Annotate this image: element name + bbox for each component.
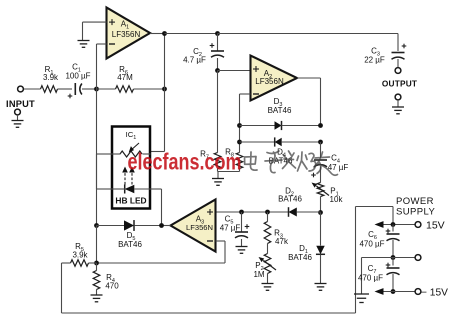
wire D2 to node I bbox=[297, 211, 321, 213]
wire A1 output bbox=[150, 33, 165, 35]
resistor R6 bbox=[116, 65, 134, 92]
diode D4 bbox=[269, 137, 293, 165]
wire rail node A down to D5 bbox=[96, 89, 98, 226]
optocoupler IC1 box bbox=[112, 127, 150, 209]
node D junction (C2 bottom) bbox=[215, 58, 220, 73]
svg-text:LF356N: LF356N bbox=[186, 223, 213, 232]
diode D2 bbox=[278, 187, 302, 217]
watermark elecfans.com bbox=[128, 149, 242, 175]
svg-text:470 µF: 470 µF bbox=[359, 239, 384, 248]
svg-text:4.7 µF: 4.7 µF bbox=[183, 56, 206, 65]
capacitor C6 bbox=[359, 225, 399, 249]
wire R5 left leads bbox=[62, 262, 97, 264]
light arrows in IC1 bbox=[122, 167, 135, 185]
svg-text:470 µF: 470 µF bbox=[358, 273, 383, 282]
wire node D to A2 plus bbox=[218, 70, 251, 72]
capacitor C4 bbox=[311, 154, 348, 178]
wire 0V to ground bbox=[362, 258, 394, 294]
ground (C5) bbox=[236, 247, 248, 254]
ground (power supply) bbox=[354, 294, 369, 303]
svg-text:10k: 10k bbox=[330, 195, 344, 204]
wire A1 minus input bbox=[97, 44, 107, 89]
wire node A to R6 bbox=[97, 88, 116, 90]
wire R1 to C1 bbox=[58, 88, 73, 90]
wire R4 to ground bbox=[96, 290, 98, 295]
svg-text:100 µF: 100 µF bbox=[65, 72, 90, 81]
wire C4 to P1 bbox=[320, 167, 322, 183]
wire LDR right lead bbox=[143, 153, 151, 155]
node N junction (R5/R4) bbox=[94, 261, 99, 266]
node C junction (top bus at C2) bbox=[215, 31, 220, 36]
capacitor C3 bbox=[364, 44, 406, 65]
resistor R4 bbox=[93, 263, 119, 291]
ground (A1 plus input) bbox=[78, 41, 90, 48]
node L junction (D5 left) bbox=[94, 223, 99, 228]
potentiometer P1 bbox=[312, 183, 344, 205]
wire C3 to output bbox=[397, 59, 399, 68]
wire R6 to node B bbox=[134, 88, 165, 90]
terminal -15V bbox=[415, 288, 448, 299]
wire C5 to ground bbox=[241, 239, 243, 246]
terminal 0V bbox=[415, 255, 421, 261]
resistor R8 bbox=[225, 148, 243, 169]
output terminal bbox=[382, 68, 417, 89]
LED in IC1 (HB LED) bbox=[115, 185, 146, 206]
svg-text:elecfans.com: elecfans.com bbox=[128, 149, 242, 175]
wire D4 row left bbox=[240, 141, 275, 143]
wire 0V row bbox=[393, 257, 415, 259]
wire R7 R8 bottoms bbox=[218, 169, 240, 179]
ground (R7 R8) bbox=[212, 179, 224, 186]
capacitor C5 bbox=[220, 212, 250, 238]
ground (R4) bbox=[91, 295, 103, 302]
resistor R5 bbox=[71, 242, 89, 266]
wire LED right lead bbox=[134, 189, 162, 226]
wire A3 output bbox=[162, 225, 171, 227]
node Q junction (0V) bbox=[391, 255, 396, 260]
wire A1 output bus to C2 bbox=[165, 33, 218, 35]
op-amp A2 bbox=[251, 56, 298, 101]
op-amp A1 bbox=[107, 8, 151, 59]
watermark chinese script bbox=[245, 151, 338, 175]
ground (D1) bbox=[315, 284, 327, 291]
input ground terminal bbox=[15, 109, 21, 120]
wire A2 output bbox=[297, 78, 321, 126]
capacitor C7 bbox=[358, 258, 400, 283]
wire D5 right bbox=[134, 225, 161, 227]
photoresistor in IC1 bbox=[120, 143, 142, 157]
svg-text:OUTPUT: OUTPUT bbox=[382, 79, 417, 89]
wire LDR left lead bbox=[97, 153, 121, 155]
diode D3 bbox=[268, 97, 292, 130]
wire C6 to node Q bbox=[392, 240, 394, 258]
svg-text:POWER: POWER bbox=[396, 196, 434, 207]
node I junction bbox=[318, 210, 323, 215]
capacitor C2 bbox=[183, 34, 224, 65]
node G junction (D4 row left) bbox=[237, 140, 242, 145]
ground (output) bbox=[392, 107, 404, 114]
wire LED left lead bbox=[97, 154, 126, 189]
node E junction (D3 row left) bbox=[237, 123, 242, 128]
potentiometer P2 bbox=[253, 254, 276, 280]
svg-text:BAT46: BAT46 bbox=[268, 106, 292, 115]
svg-text:22 µF: 22 µF bbox=[364, 56, 385, 65]
wire D3 row right bbox=[282, 125, 321, 127]
svg-text:47M: 47M bbox=[117, 73, 133, 82]
wire top bus C2 to C3 bbox=[218, 34, 399, 52]
wire +15V row bbox=[375, 221, 416, 228]
svg-text:3.9k: 3.9k bbox=[43, 73, 59, 82]
svg-text:3.9k: 3.9k bbox=[72, 251, 88, 260]
diode D5 bbox=[118, 220, 142, 249]
svg-text:LF356N: LF356N bbox=[112, 30, 141, 39]
resistor R7 bbox=[200, 150, 221, 169]
wire C1 to node A bbox=[82, 88, 97, 90]
diode D1 bbox=[288, 244, 325, 262]
wire -15V row bbox=[375, 288, 416, 295]
svg-text:470: 470 bbox=[105, 282, 119, 291]
svg-text:BAT46: BAT46 bbox=[278, 195, 302, 204]
node B junction bbox=[162, 87, 167, 92]
wire A2 minus input bbox=[240, 94, 251, 153]
svg-text:SUPPLY: SUPPLY bbox=[396, 207, 435, 218]
wire R3 to P2 bbox=[267, 244, 269, 254]
node B top junction bbox=[162, 31, 167, 36]
svg-text:HB LED: HB LED bbox=[115, 196, 146, 206]
svg-text:47 µF: 47 µF bbox=[328, 163, 349, 172]
output ground terminal bbox=[395, 94, 401, 106]
wire D3 row left bbox=[240, 125, 275, 127]
node M junction (D5 right) bbox=[159, 223, 164, 228]
wire A1 plus input bbox=[83, 22, 107, 40]
wire D4 row right bbox=[282, 141, 321, 143]
input terminal bbox=[6, 86, 35, 109]
svg-text:BAT46: BAT46 bbox=[288, 253, 312, 262]
svg-text:IC1: IC1 bbox=[126, 130, 137, 141]
ground (input) bbox=[12, 121, 24, 128]
op-amp A3 bbox=[171, 200, 216, 252]
wire D5 left bbox=[97, 225, 125, 227]
wire C7 to node R bbox=[392, 274, 394, 292]
wire input to R1 bbox=[23, 88, 41, 90]
wire A3 plus row bbox=[216, 211, 289, 213]
resistor R1 bbox=[41, 65, 60, 92]
resistor R3 bbox=[264, 222, 289, 247]
node F junction (D3 row right) bbox=[318, 123, 323, 128]
power supply label bbox=[396, 196, 435, 218]
wire P1 to node I bbox=[320, 197, 322, 213]
svg-text:LF356N: LF356N bbox=[255, 77, 284, 86]
svg-text:47k: 47k bbox=[275, 237, 289, 246]
wire A2 out rail to C4 bbox=[320, 142, 322, 158]
node K junction (R3 tap) bbox=[265, 210, 270, 215]
capacitor C1 bbox=[65, 63, 90, 99]
terminal +15V bbox=[415, 220, 445, 232]
svg-text:47 µF: 47 µF bbox=[220, 224, 241, 233]
node H junction (D4 row right) bbox=[318, 140, 323, 145]
wire node K to R3 bbox=[267, 212, 269, 222]
node J junction (C5 tap) bbox=[239, 210, 244, 215]
wire node I to D1 bbox=[320, 213, 322, 246]
svg-text:15V: 15V bbox=[426, 220, 445, 232]
svg-text:INPUT: INPUT bbox=[6, 99, 35, 109]
wire bottom supply rail bbox=[62, 207, 394, 314]
svg-text:1M: 1M bbox=[253, 270, 264, 279]
wire A3 minus feedback bbox=[97, 241, 226, 263]
wire rail to node N bbox=[96, 226, 98, 264]
node A junction (C1/R6/A1- rail) bbox=[94, 87, 99, 92]
wire D1 to ground bbox=[320, 255, 322, 284]
svg-text:− 15V: − 15V bbox=[421, 288, 448, 299]
wire node D rail down to R7 bbox=[217, 71, 219, 153]
ground (P2) bbox=[262, 284, 274, 291]
svg-text:BAT46: BAT46 bbox=[118, 240, 142, 249]
node P junction (+15V) bbox=[391, 222, 396, 227]
wire P2 to ground bbox=[267, 274, 269, 284]
node R junction (-15V) bbox=[391, 289, 396, 294]
wire node B rail down bbox=[151, 34, 165, 152]
